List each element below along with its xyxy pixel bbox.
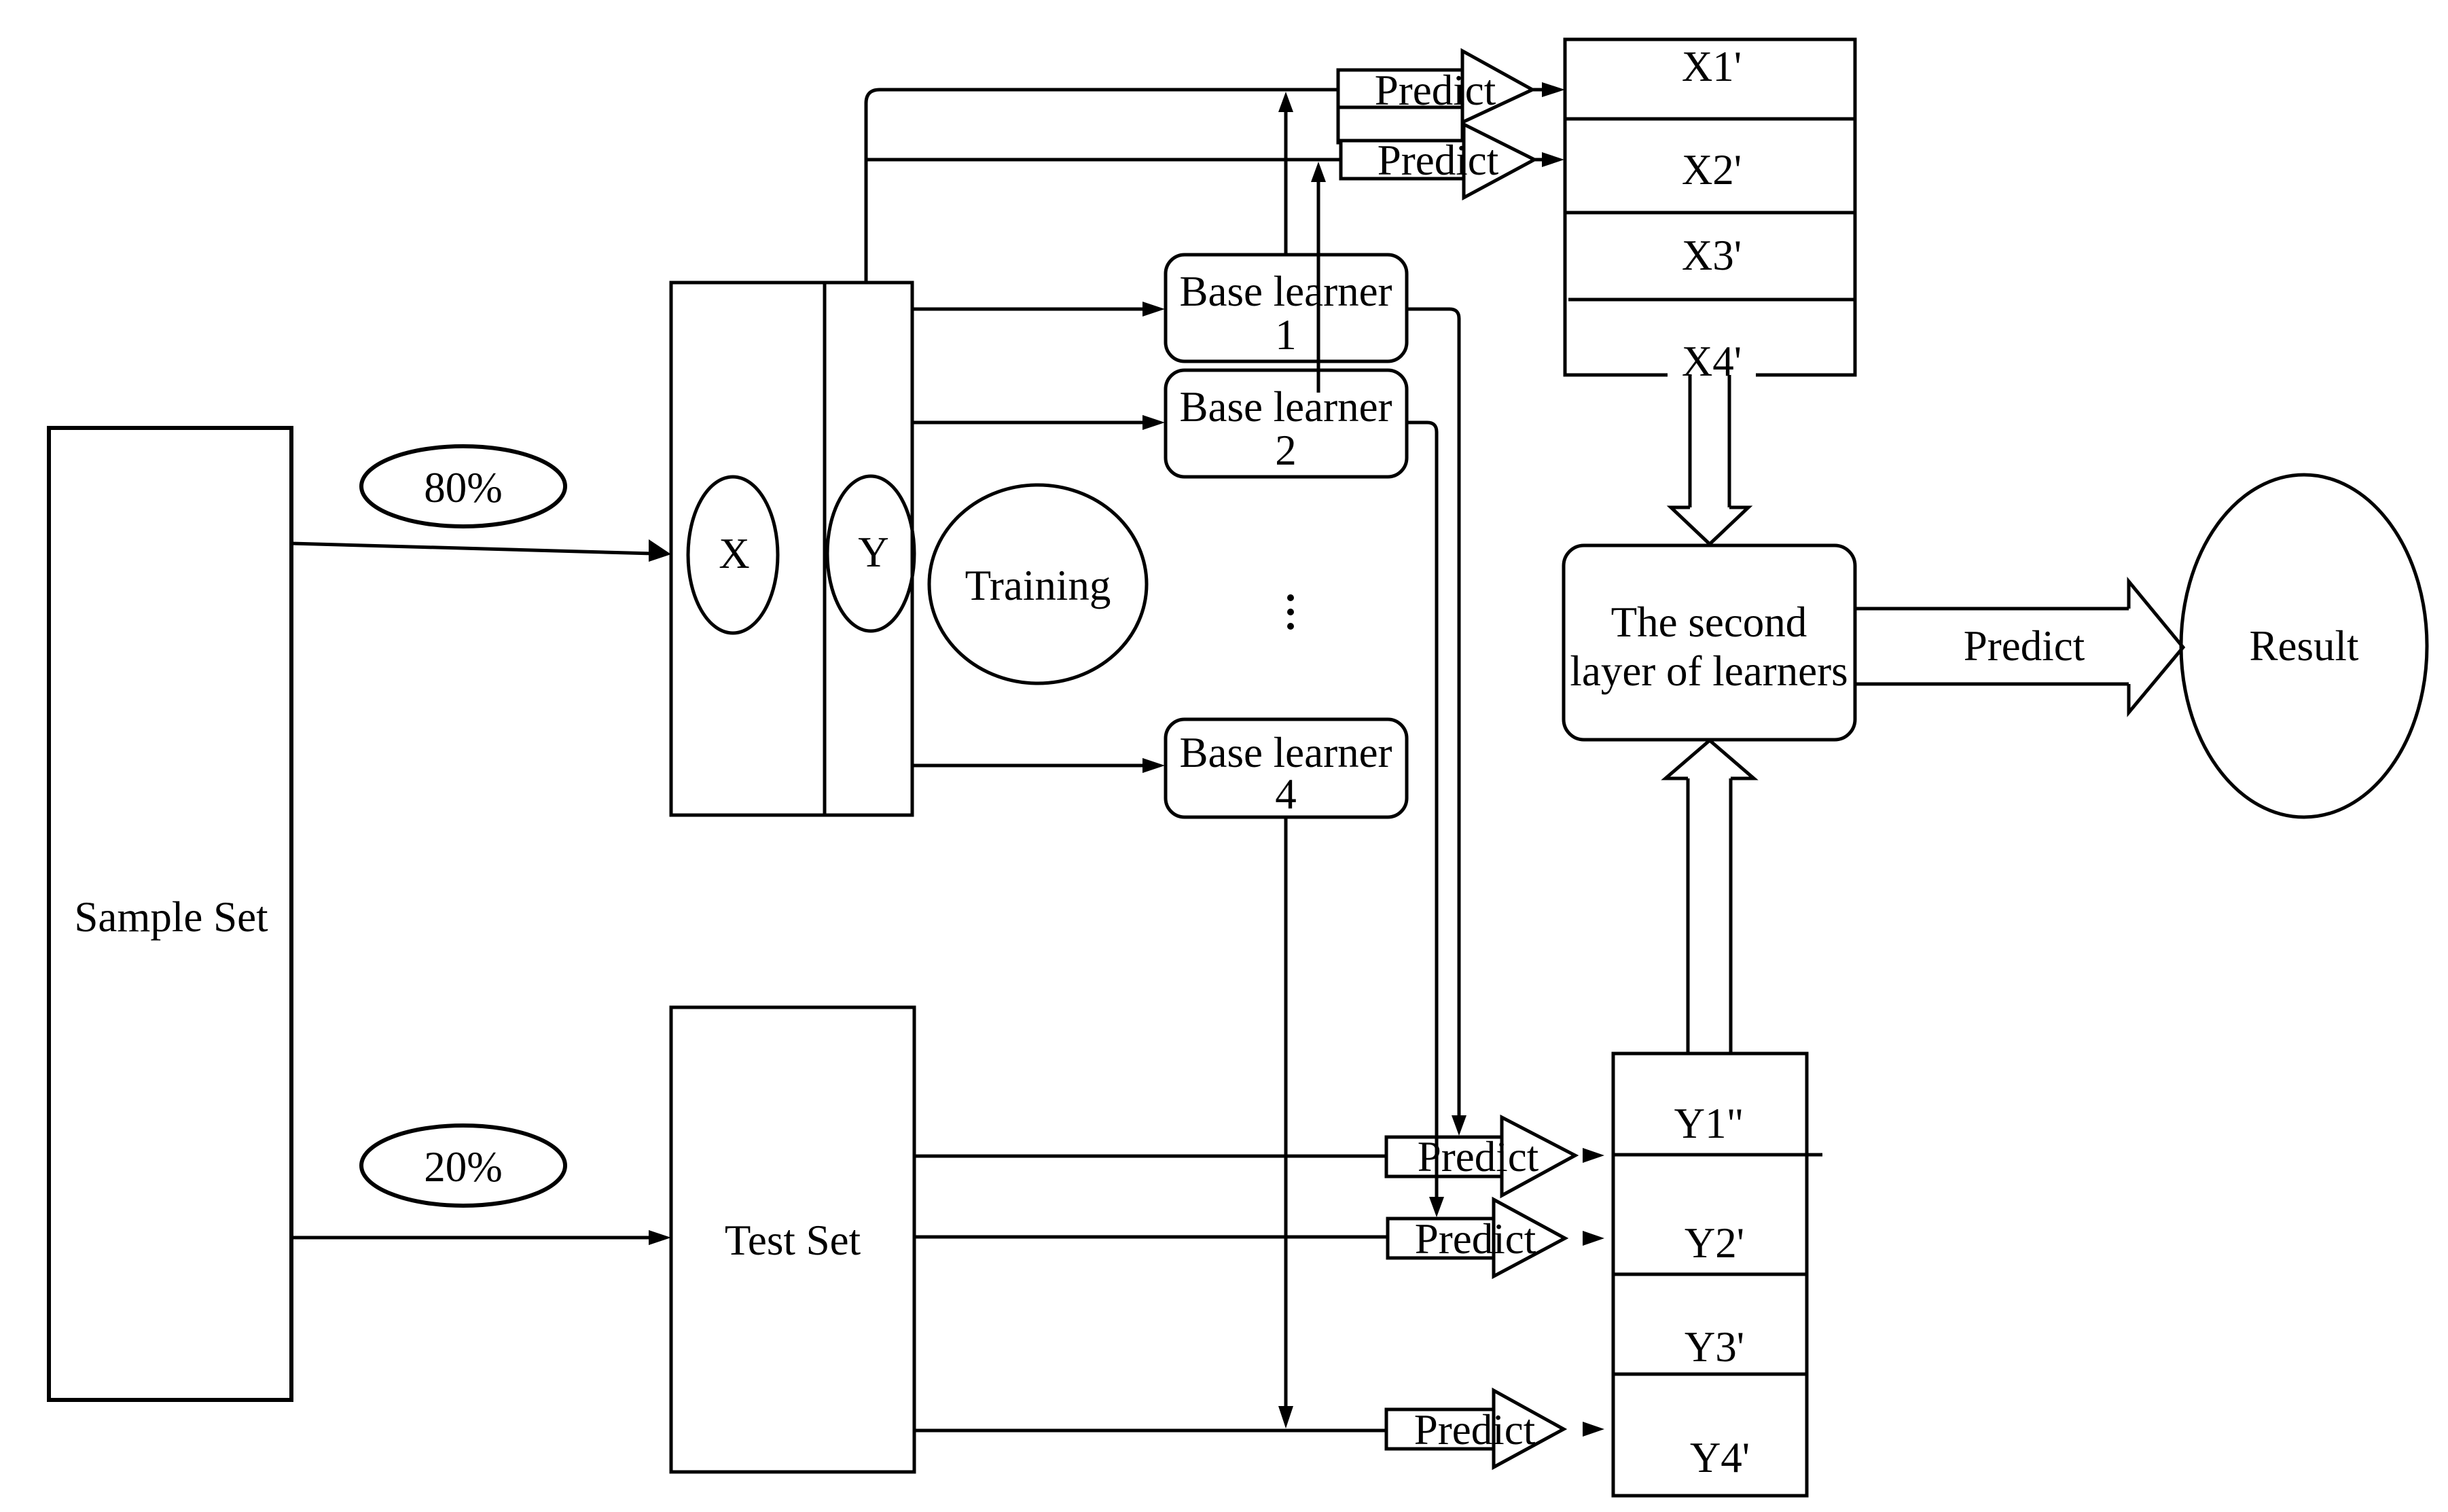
hidden block arrow body between predict rows xyxy=(1338,107,1462,143)
svg-text:Predict: Predict xyxy=(1378,137,1499,184)
svg-text:layer of learners: layer of learners xyxy=(1570,647,1848,695)
wire test to predict 3 xyxy=(914,1429,1386,1433)
X ellipse xyxy=(688,477,778,633)
wire sample to train xyxy=(291,543,653,554)
predict block arrow top 1 xyxy=(1338,51,1532,122)
training circle xyxy=(929,485,1147,683)
predict block arrow top 2 xyxy=(1341,124,1534,198)
sample set box xyxy=(49,428,291,1400)
base learner 1 box xyxy=(1166,255,1407,361)
svg-text:2: 2 xyxy=(1275,427,1297,474)
svg-text:Predict: Predict xyxy=(1414,1406,1536,1454)
svg-text:Base learner: Base learner xyxy=(1179,729,1392,776)
train set box xyxy=(671,283,912,815)
open arrow second layer to result xyxy=(1855,607,2129,611)
open arrow X table down to second layer xyxy=(1689,375,1692,507)
svg-text:Y3': Y3' xyxy=(1685,1323,1744,1371)
svg-text:Predict: Predict xyxy=(1418,1133,1539,1181)
base learner 2 box xyxy=(1166,370,1407,477)
wire train to base learner 1 xyxy=(912,308,1147,311)
wire Y column up to predict row A xyxy=(866,90,1339,283)
wire sample to test xyxy=(291,1236,653,1240)
arrow base learner 1 up to row A xyxy=(1284,110,1288,255)
svg-text:The second: The second xyxy=(1611,598,1807,646)
svg-text:Sample Set: Sample Set xyxy=(74,893,268,941)
wire test to predict 2 xyxy=(914,1236,1388,1239)
second layer box xyxy=(1564,545,1855,740)
wire base learner 2 loop down (through predict box) xyxy=(1435,1134,1439,1199)
wire base learner 4 down xyxy=(1284,817,1288,1408)
svg-text:1: 1 xyxy=(1275,311,1297,359)
svg-text:Y: Y xyxy=(858,528,889,576)
20% ellipse xyxy=(361,1126,565,1206)
svg-text:Y2': Y2' xyxy=(1685,1219,1744,1267)
80% ellipse xyxy=(361,446,565,526)
predict block arrow bottom 2 xyxy=(1388,1200,1565,1276)
svg-text:Result: Result xyxy=(2249,622,2359,670)
svg-text:X2': X2' xyxy=(1682,146,1742,194)
Y output table xyxy=(1613,1054,1807,1496)
svg-text:80%: 80% xyxy=(424,464,502,511)
svg-text:Predict: Predict xyxy=(1415,1215,1536,1263)
X output table xyxy=(1565,39,1855,375)
predict block arrow bottom 1 xyxy=(1386,1117,1575,1195)
arrowhead into X2 xyxy=(1534,158,1546,162)
wire train to base learner 2 xyxy=(912,421,1147,425)
svg-text:X3': X3' xyxy=(1682,232,1742,279)
wire train to base learner 4 xyxy=(912,764,1147,768)
svg-text:Y1": Y1" xyxy=(1674,1100,1744,1147)
wire predict row B xyxy=(866,158,1342,162)
wire base learner 1 loop down xyxy=(1407,309,1459,1117)
arrow base learner 2 up to row B xyxy=(1317,180,1320,393)
svg-text:Training: Training xyxy=(965,562,1111,609)
arrowhead into X1 xyxy=(1532,88,1546,92)
svg-text:Base learner: Base learner xyxy=(1179,268,1392,315)
svg-text:Predict: Predict xyxy=(1964,622,2085,670)
Y ellipse xyxy=(827,476,914,631)
wire base learner 2 loop down (upper part) xyxy=(1407,422,1437,1134)
vertical ellipsis xyxy=(1287,594,1294,630)
svg-text:Y4': Y4' xyxy=(1690,1434,1750,1481)
base learner 4 box xyxy=(1166,719,1407,817)
svg-text:Test Set: Test Set xyxy=(725,1217,861,1264)
svg-text:X1': X1' xyxy=(1682,43,1742,90)
result ellipse xyxy=(2181,475,2427,817)
test set box xyxy=(671,1007,914,1472)
train set divider xyxy=(823,283,827,815)
open arrow Y table up to second layer xyxy=(1687,778,1690,1054)
wire test to predict 1 xyxy=(914,1155,1386,1158)
svg-text:4: 4 xyxy=(1275,770,1297,818)
predict block arrow bottom 3 xyxy=(1386,1390,1564,1467)
svg-text:Base learner: Base learner xyxy=(1179,383,1392,431)
svg-text:X: X xyxy=(719,530,750,577)
svg-text:20%: 20% xyxy=(424,1143,502,1191)
X4' label xyxy=(1668,343,1756,382)
